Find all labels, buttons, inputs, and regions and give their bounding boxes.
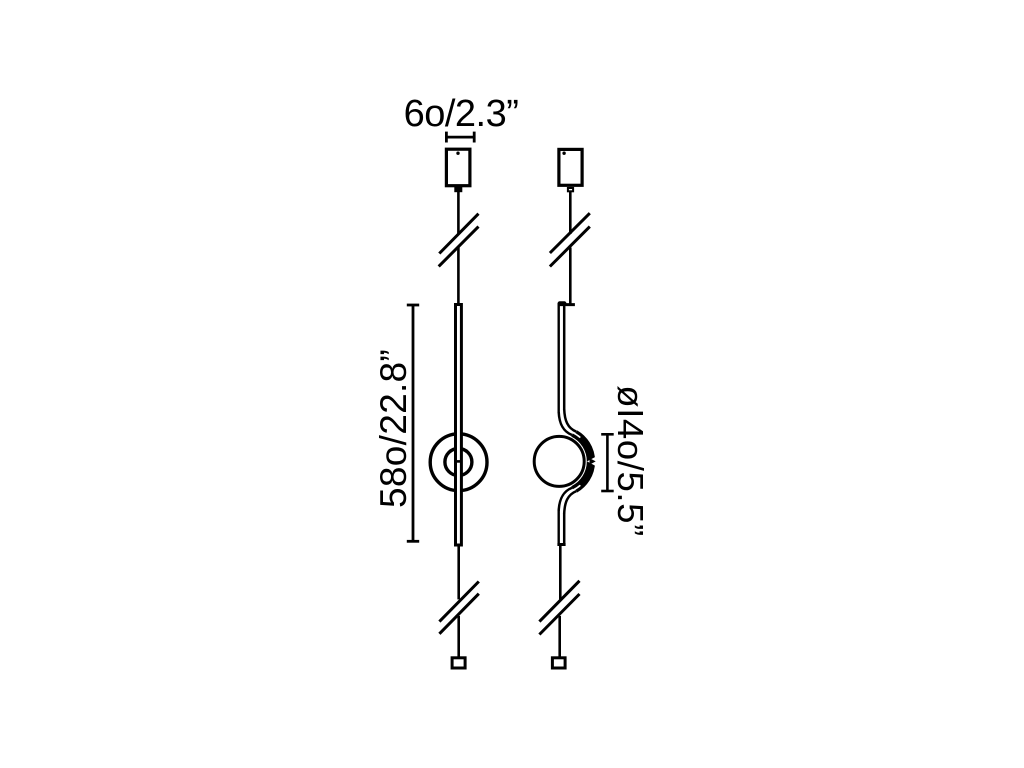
wire below bar (side) [559,546,562,599]
LED bar (front view, vertical) [456,305,462,546]
canopy screw dot (side) [562,152,565,155]
svg-text:58o/22.8”: 58o/22.8” [373,349,414,508]
counterweight end square (front) [452,658,465,668]
wire below bar (front) [457,547,460,600]
bar lower S-curve from ball (side) [559,488,572,511]
cable gland stub (front) [454,187,462,192]
lamp head inner circle (front) [445,449,472,476]
wire break symbol lower (front) [439,582,478,634]
dimension line 140mm (vertical with end ticks) [601,434,614,491]
wrap joint notch (white wedge) [587,455,599,468]
wrap inner arc (side) [572,435,588,488]
suspension wire to bar hook (side) [569,248,572,306]
wire break symbol upper (side) [550,213,590,266]
wrap outer arc (side) [576,432,593,491]
bar lower rod profile (side, double line) [558,510,560,545]
wrap mid crescent fill (side) [579,435,594,487]
wire break symbol lower (side) [539,581,579,635]
bar upper S-curve to ball (side) [559,412,572,435]
canopy screw dot (front) [456,152,459,155]
suspension wire upper (front) [457,192,460,234]
bar top hook (side) [558,301,567,305]
suspension wire upper (side) [569,191,572,234]
dimension line 580mm (vertical with end ticks) [407,305,419,541]
wrap joint tip (side) [590,458,596,465]
bar upper rod profile (side, double line) [558,304,560,414]
glass ball (side view) [534,436,584,486]
svg-text:øI4o/5.5”: øI4o/5.5” [610,385,651,536]
dimension line 60mm (horizontal with end ticks) [446,132,474,143]
wire to end square (front) [457,616,460,657]
svg-text:6o/2.3”: 6o/2.3” [404,93,519,135]
bar bottom cap (side) [557,543,565,546]
wire to end square (side) [558,616,561,657]
wire break symbol upper (front) [439,214,479,267]
suspension wire to bar (front) [457,248,460,305]
bar centre dash [455,460,463,463]
lamp head outer circle (front) [430,434,487,491]
cable gland stub (side) [568,188,573,191]
counterweight end square (side) [552,658,565,668]
canopy (front view) [446,149,470,186]
canopy (side view) [559,149,582,185]
